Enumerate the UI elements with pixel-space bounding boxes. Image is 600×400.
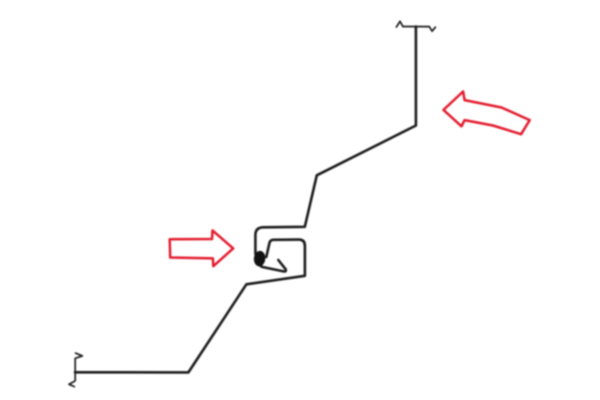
wire lower panel profile — [75, 240, 305, 373]
break symbol bottom-left (lower panel) — [69, 353, 82, 387]
arrow right (pointing left, tilted) — [444, 92, 530, 135]
node sealant blob — [253, 250, 266, 267]
break symbol top (upper panel) — [396, 21, 435, 31]
arrow left (pointing right) — [170, 230, 234, 266]
wire upper panel profile — [255, 27, 416, 272]
